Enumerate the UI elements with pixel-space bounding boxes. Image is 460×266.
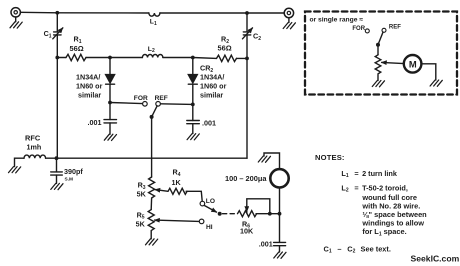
wire RFC to junction xyxy=(46,157,57,159)
node: junction RFC / 390pf / rail xyxy=(55,156,59,160)
meter M (box) xyxy=(404,55,422,73)
capacitor .001 (left) xyxy=(104,120,117,123)
svg-text:M: M xyxy=(409,58,417,69)
ground (right branch) xyxy=(187,134,199,140)
node: junction R6 loop / wire xyxy=(268,212,272,216)
wire CR1 anode lead xyxy=(109,58,111,75)
switch arm (box) xyxy=(378,32,383,45)
switch S1 arm xyxy=(152,106,158,117)
wire rail to R2 xyxy=(193,57,217,60)
svg-text:for L1 space.: for L1 space. xyxy=(362,227,406,237)
wire C2 top lead xyxy=(246,13,248,32)
node: S2 pole xyxy=(218,212,222,216)
svg-text:REF: REF xyxy=(389,25,401,31)
node: junction FOR tap xyxy=(108,101,112,105)
svg-text:5K: 5K xyxy=(136,219,146,228)
connector J2 xyxy=(284,8,293,17)
svg-text:1mh: 1mh xyxy=(27,142,42,151)
wire top rail to L1 xyxy=(57,12,149,14)
node: junction top of C2 xyxy=(245,11,249,15)
capacitor .001 (right) xyxy=(187,121,200,124)
svg-text:similar: similar xyxy=(78,91,101,100)
capacitor C2 (variable) xyxy=(243,32,251,35)
diode CR2 xyxy=(188,75,197,83)
wire CR1 cathode to cap xyxy=(109,84,111,119)
ground (R5) xyxy=(146,239,158,245)
diode CR1 xyxy=(106,75,115,83)
node: junction top of C1 xyxy=(55,11,59,15)
wire L2 to CR2 branch xyxy=(163,57,193,59)
switch S1 contact FOR xyxy=(143,102,148,107)
node: junction REF tap xyxy=(191,103,195,107)
switch S2 contact LO xyxy=(200,201,205,206)
ground (left branch) xyxy=(104,134,116,140)
resistor R1 xyxy=(66,54,86,60)
resistor R3 (pot) xyxy=(149,177,155,198)
wire 390pf to ground xyxy=(56,175,58,183)
ground (box meter) xyxy=(430,80,442,86)
wire RFC left lead to ground xyxy=(15,158,25,166)
wire R4 to LO contact xyxy=(186,191,202,201)
wire pot bottom to ground (box) xyxy=(377,75,379,81)
wire R3 bottom to R5 top xyxy=(150,198,152,209)
inductor L1 xyxy=(149,13,160,16)
wire to FOR contact xyxy=(110,103,143,104)
wire R5 bottom to ground xyxy=(150,231,152,239)
wire rail to L2 xyxy=(110,57,142,59)
switch S2 arm xyxy=(204,205,216,212)
wire top rail right of L1 xyxy=(160,12,247,14)
wire C1 top lead xyxy=(56,13,58,32)
switch contact REF (box) xyxy=(382,28,386,32)
svg-text:390pf: 390pf xyxy=(64,167,83,176)
dashed enclosure box xyxy=(305,12,457,95)
svg-text:RFC: RFC xyxy=(25,134,41,143)
wire C1 bottom lead xyxy=(56,35,58,58)
switch contact FOR (box) xyxy=(365,29,369,33)
switch S2 contact HI xyxy=(199,219,204,224)
ground (below J1) xyxy=(15,17,17,22)
svg-text:L2: L2 xyxy=(148,46,155,54)
svg-text:SeekIC.com: SeekIC.com xyxy=(411,254,460,264)
wire R1 to CR1 branch xyxy=(86,57,110,59)
svg-text:1N34A/: 1N34A/ xyxy=(200,73,224,82)
ground (meter top) xyxy=(258,156,270,162)
inductor L2 xyxy=(142,55,162,58)
svg-text:or single range ≈: or single range ≈ xyxy=(310,16,364,23)
svg-text:1N60 or: 1N60 or xyxy=(200,82,227,91)
capacitor C1 (variable) xyxy=(54,32,62,35)
svg-text:1K: 1K xyxy=(172,178,182,187)
svg-text:FOR: FOR xyxy=(352,26,365,32)
svg-text:NOTES:: NOTES: xyxy=(315,153,345,162)
svg-text:S.M: S.M xyxy=(65,177,74,183)
ground (below J2) xyxy=(288,18,290,23)
svg-text:56Ω: 56Ω xyxy=(70,44,84,53)
ground (box pot) xyxy=(372,81,384,87)
wire 390pf top lead xyxy=(56,158,58,172)
node: S1 pole xyxy=(150,115,154,119)
wire rail to R1 xyxy=(57,57,66,59)
wire pot wiper to meter (box) xyxy=(382,62,404,63)
node: junction meter line xyxy=(278,212,282,216)
switch S1 contact REF xyxy=(156,102,161,107)
svg-text:C1 – C2 See text.: C1 – C2 See text. xyxy=(324,244,391,254)
resistor R2 xyxy=(217,55,237,61)
wire meter top lead to ground xyxy=(264,153,280,169)
resistor R4 xyxy=(168,188,187,194)
svg-text:5K: 5K xyxy=(137,190,147,199)
wire (dashed link) S2 pole to R6 xyxy=(223,213,238,215)
svg-text:L1: L1 xyxy=(150,19,157,27)
wire top rail left xyxy=(20,11,57,14)
svg-text:REF: REF xyxy=(155,95,168,102)
meter M1 100-200ua xyxy=(270,169,288,187)
wire R6 to meter line xyxy=(256,213,279,215)
svg-text:10K: 10K xyxy=(240,227,254,236)
wire CR2 cathode to cap xyxy=(192,84,194,120)
wire R2 to C2 line xyxy=(237,57,248,59)
capacitor .001 (meter) xyxy=(274,242,286,245)
node: junction C1 / R1 rail xyxy=(55,56,59,60)
wire S1 pole down to R3 xyxy=(151,117,153,177)
wire to REF contact xyxy=(161,103,193,106)
wire meter bottom down xyxy=(279,188,281,243)
svg-text:56Ω: 56Ω xyxy=(218,44,232,53)
inductor RFC xyxy=(24,155,46,158)
wire top rail to J2 xyxy=(247,12,284,14)
svg-text:L1 = 2 turn link: L1 = 2 turn link xyxy=(341,169,397,179)
wire R5 wiper to HI contact xyxy=(155,220,199,221)
svg-text:.001: .001 xyxy=(202,119,216,128)
svg-text:.001: .001 xyxy=(88,118,102,127)
svg-text:HI: HI xyxy=(206,224,213,231)
wire pole to pot (box) xyxy=(377,45,379,55)
node: switch pole (box) xyxy=(376,43,380,47)
wire cap to ground (left branch) xyxy=(109,123,111,134)
node: junction CR1 anode rail xyxy=(108,56,112,60)
ground (meter bottom) xyxy=(274,252,286,258)
wire meter to ground (box) xyxy=(421,64,435,80)
svg-text:LO: LO xyxy=(206,198,215,205)
wire C2 bottom lead down to rail xyxy=(246,35,248,158)
connector J1 xyxy=(11,8,20,17)
capacitor 390pf xyxy=(51,172,63,175)
wire left vertical down to RFC rail xyxy=(56,58,58,159)
wire lower rail to C2 line xyxy=(57,157,248,159)
svg-text:100 – 200μa: 100 – 200μa xyxy=(225,174,267,183)
ground (390pf) xyxy=(51,183,63,189)
node: junction CR2 anode rail xyxy=(191,56,195,60)
resistor R5 (pot) xyxy=(148,210,154,231)
node: junction R2 / C2 line xyxy=(245,57,249,61)
svg-text:.001: .001 xyxy=(259,240,273,249)
svg-text:FOR: FOR xyxy=(134,95,148,102)
wire CR2 anode lead xyxy=(192,58,194,75)
potentiometer (box) xyxy=(375,55,381,74)
wire R3 wiper to R4 xyxy=(155,190,168,192)
wire cap to ground (meter) xyxy=(279,246,281,252)
wire R6 wiper loop xyxy=(247,199,270,214)
svg-text:similar: similar xyxy=(200,91,223,100)
svg-text:1N34A/: 1N34A/ xyxy=(76,73,100,82)
svg-text:1N60 or: 1N60 or xyxy=(76,82,103,91)
wire cap to ground (right branch) xyxy=(192,124,194,134)
ground (RFC) xyxy=(9,167,21,173)
resistor R6 (rheostat) xyxy=(238,211,257,217)
